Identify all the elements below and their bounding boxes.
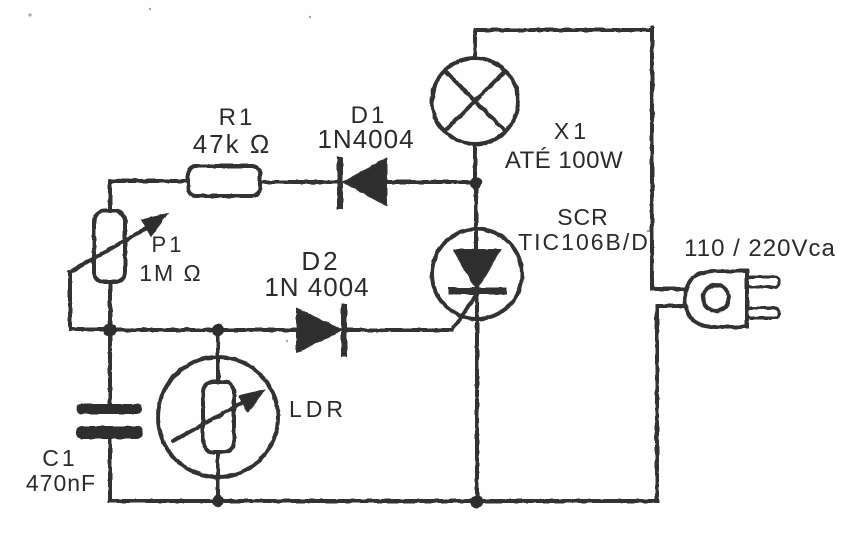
node LDR-top junction dot — [212, 324, 224, 336]
wire C1 to bottom corner — [108, 439, 112, 501]
LDR — [158, 357, 278, 477]
wire node B to C1 — [108, 330, 112, 404]
SCR U1 — [432, 229, 522, 319]
plug 110/220Vca — [685, 271, 779, 327]
node A junction dot — [470, 177, 482, 189]
wire R1 to D1 — [261, 180, 338, 184]
wire node A to SCR anode — [474, 183, 478, 251]
wire LDR top lead — [216, 330, 220, 382]
svg-text:47k Ω: 47k Ω — [193, 129, 272, 159]
node SCR-bottom junction dot — [471, 496, 484, 509]
wire lamp bottom lead — [473, 144, 477, 183]
speck marks (scan artifacts) — [28, 8, 649, 342]
svg-text:SCR: SCR — [557, 204, 609, 230]
wire top horizontal — [475, 28, 652, 32]
svg-text:1M Ω: 1M Ω — [139, 260, 203, 286]
svg-text:1N 4004: 1N 4004 — [264, 272, 369, 302]
wire D1 to node A — [386, 180, 476, 184]
diode D2 — [297, 307, 344, 354]
diode D1 — [340, 159, 386, 206]
svg-text:C1: C1 — [42, 445, 77, 471]
wire bottom horizontal — [110, 499, 657, 503]
wire lamp top lead — [473, 30, 477, 58]
node B junction dot — [104, 324, 117, 337]
wire P1 bottom lead — [108, 282, 112, 330]
wire LDR bottom lead — [216, 452, 220, 501]
svg-text:470nF: 470nF — [26, 470, 96, 496]
lamp X1 — [432, 58, 518, 144]
wire LDR node to D2 — [218, 328, 297, 332]
svg-text:1N4004: 1N4004 — [317, 124, 414, 154]
capacitor C1 — [76, 404, 143, 439]
potentiometer P1 — [70, 211, 167, 282]
svg-text:110 / 220Vca: 110 / 220Vca — [684, 235, 836, 262]
wire plug top lead — [652, 287, 690, 291]
svg-text:LDR: LDR — [289, 396, 347, 422]
wire D2 to gate bend — [347, 328, 452, 332]
wire right vertical upper — [650, 28, 654, 289]
wire left segment to R1 — [110, 179, 187, 183]
svg-text:ATÉ 100W: ATÉ 100W — [505, 147, 623, 174]
svg-text:P1: P1 — [152, 232, 185, 257]
wire left vertical P1 top — [108, 181, 112, 211]
svg-text:X1: X1 — [554, 118, 590, 144]
resistor R1 — [188, 166, 260, 196]
wire gate diagonal — [452, 291, 479, 330]
wire plug bottom lead — [657, 304, 690, 308]
wire right vertical lower — [655, 306, 659, 501]
svg-text:R1: R1 — [219, 104, 256, 131]
wire node B to LDR node — [110, 328, 218, 332]
wire P1 wiper arm — [70, 272, 110, 329]
wire SCR cathode lead — [475, 295, 479, 501]
node LDR-bottom junction dot — [212, 495, 224, 507]
svg-text:TIC106B/D: TIC106B/D — [518, 229, 650, 255]
